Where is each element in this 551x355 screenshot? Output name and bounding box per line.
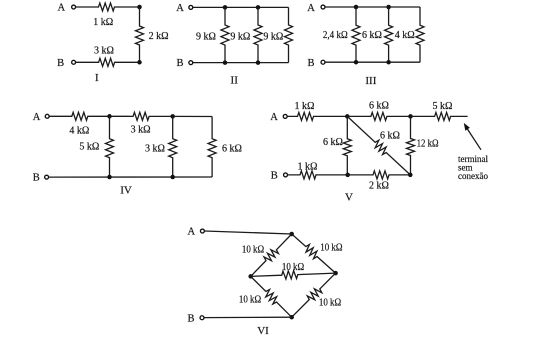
junction dot left node (VI) <box>248 274 253 279</box>
wire bottom rail (III) <box>325 61 420 63</box>
svg-text:6 kΩ: 6 kΩ <box>369 100 389 111</box>
junction dot top-right node (V) <box>408 114 413 119</box>
svg-text:3 kΩ: 3 kΩ <box>94 45 114 56</box>
wire A to top node (VI) <box>205 231 292 234</box>
junction dot top first (IV) <box>107 114 112 119</box>
svg-text:6 kΩ: 6 kΩ <box>222 143 242 154</box>
svg-text:B: B <box>307 58 314 69</box>
circuit IV: ladder network, node A terminal <box>45 114 49 118</box>
junction dot bottom-right node (V) <box>408 173 413 178</box>
svg-text:6 kΩ: 6 kΩ <box>323 137 343 148</box>
resistor R 4 kΩ (IV) with leads <box>49 112 109 120</box>
annotation text terminal sem conexão (V) <box>458 154 488 181</box>
annotation arrow to open terminal (V) <box>464 123 481 150</box>
junction dot right node (VI) <box>333 271 338 276</box>
resistor R 10 kΩ lower-left arm (VI) <box>251 276 292 317</box>
resistor R 9 kΩ third branch right edge (II) <box>285 7 293 62</box>
svg-text:1 kΩ: 1 kΩ <box>295 101 315 112</box>
junction dot top-right (I) <box>137 5 142 10</box>
junction dot bottom first (II) <box>223 60 228 65</box>
node B terminal (I) <box>72 60 76 64</box>
wire bottom rail (II) <box>193 62 289 64</box>
node B terminal (II) <box>189 61 193 65</box>
svg-text:10 kΩ: 10 kΩ <box>242 245 264 256</box>
svg-text:10 kΩ: 10 kΩ <box>320 242 342 253</box>
svg-text:A: A <box>188 227 196 238</box>
resistor R 5 kΩ to open terminal (V) <box>411 112 468 120</box>
svg-text:A: A <box>270 112 278 123</box>
svg-text:5 kΩ: 5 kΩ <box>79 142 99 153</box>
junction dot top first (III) <box>354 5 359 10</box>
wire top rail (II) <box>193 6 289 8</box>
node B terminal (V) <box>284 173 288 177</box>
resistor R 6 kΩ vertical right edge (IV) <box>208 117 216 178</box>
resistor R 10 kΩ upper-left arm (VI) <box>251 234 292 276</box>
resistor R 2 kΩ bottom (V) <box>348 171 411 179</box>
junction dot top node (VI) <box>289 232 294 237</box>
node B terminal (IV) <box>45 175 49 179</box>
svg-text:III: III <box>365 75 376 87</box>
svg-text:9 kΩ: 9 kΩ <box>230 31 250 42</box>
resistor R 3 kΩ vertical (IV) <box>169 116 177 177</box>
junction dot top-left node (V) <box>345 114 350 119</box>
junction dot top second (IV) <box>170 114 175 119</box>
resistor R 6 kΩ branch (III) <box>385 7 393 62</box>
resistor R 5 kΩ vertical (IV) <box>106 116 114 177</box>
circuit III: three parallel resistors, node A terminal <box>321 5 325 9</box>
resistor R 2 kΩ (I) vertical right branch <box>136 7 144 62</box>
circuit I: series-parallel network, node A terminal <box>72 5 76 9</box>
resistor R 9 kΩ second branch (II) <box>254 7 262 62</box>
wire bottom rail (IV) <box>49 176 212 178</box>
circuit VI: bridge network, node A terminal <box>200 229 204 233</box>
resistor R 1 kΩ bottom (V) <box>288 171 348 179</box>
junction dot bottom node (VI) <box>289 315 294 320</box>
svg-text:conexão: conexão <box>458 171 488 181</box>
resistor R 3 kΩ (I) with leads B to bottom-right node <box>76 58 140 66</box>
svg-text:A: A <box>33 112 41 123</box>
node B terminal (III) <box>321 60 325 64</box>
svg-text:B: B <box>176 58 183 69</box>
junction dot bottom second (III) <box>386 60 391 64</box>
junction dot bottom-left node (V) <box>345 173 350 178</box>
resistor R 1 kΩ top (V) <box>287 112 347 120</box>
junction dot bottom first (IV) <box>107 175 112 180</box>
junction dot bottom first (III) <box>354 60 359 64</box>
svg-text:2 kΩ: 2 kΩ <box>149 31 169 42</box>
resistor R 3 kΩ horizontal (IV) <box>110 112 173 120</box>
circuit V: bridge-like network, node A terminal <box>283 114 287 118</box>
svg-text:A: A <box>307 3 315 14</box>
svg-text:10 kΩ: 10 kΩ <box>319 298 341 309</box>
resistor R 9 kΩ first branch (II) <box>221 7 229 62</box>
resistor R 10 kΩ middle (VI) <box>251 271 336 279</box>
svg-text:A: A <box>176 3 184 14</box>
svg-text:B: B <box>187 313 194 324</box>
wire top right (IV) <box>173 115 212 117</box>
svg-text:A: A <box>58 2 66 13</box>
wire B to bottom node (VI) <box>204 316 292 318</box>
svg-text:B: B <box>271 171 278 182</box>
junction dot bottom second (IV) <box>170 175 175 180</box>
svg-text:V: V <box>345 192 353 204</box>
svg-text:4 kΩ: 4 kΩ <box>69 125 89 136</box>
svg-text:B: B <box>57 58 64 69</box>
svg-text:VI: VI <box>257 325 269 337</box>
svg-text:IV: IV <box>120 185 132 197</box>
junction dot bottom second (II) <box>256 60 261 65</box>
junction dot top first (II) <box>223 5 228 9</box>
resistor R 10 kΩ lower-right arm (VI) <box>292 273 336 317</box>
svg-text:9 kΩ: 9 kΩ <box>263 31 283 42</box>
svg-text:5 kΩ: 5 kΩ <box>433 101 453 112</box>
svg-text:12 kΩ: 12 kΩ <box>417 138 439 149</box>
svg-text:4 kΩ: 4 kΩ <box>395 30 415 41</box>
svg-text:II: II <box>231 75 239 87</box>
resistor R 6 kΩ left vertical (V) <box>343 116 351 174</box>
svg-text:2,4 kΩ: 2,4 kΩ <box>323 30 348 41</box>
junction dot top second (III) <box>386 5 391 10</box>
svg-text:3 kΩ: 3 kΩ <box>131 124 151 135</box>
wire top rail (III) <box>325 6 420 8</box>
svg-text:B: B <box>33 173 40 184</box>
svg-text:6 kΩ: 6 kΩ <box>380 131 400 142</box>
resistor R 1 kΩ (I) with leads A to top-right node <box>76 3 140 11</box>
resistor R 4 kΩ branch right edge (III) <box>416 7 424 62</box>
svg-text:I: I <box>95 72 99 84</box>
resistor R 6 kΩ diagonal (V) <box>347 116 410 174</box>
svg-text:3 kΩ: 3 kΩ <box>145 143 165 154</box>
svg-text:2 kΩ: 2 kΩ <box>369 181 389 192</box>
circuit II: three parallel resistors, node A terminal <box>189 5 193 9</box>
node B terminal (VI) <box>200 316 204 320</box>
svg-text:6 kΩ: 6 kΩ <box>362 30 382 41</box>
resistor R 12 kΩ vertical (V) <box>407 116 415 174</box>
svg-text:10 kΩ: 10 kΩ <box>282 262 304 273</box>
junction dot bottom-right (I) <box>137 60 142 65</box>
resistor R 6 kΩ top (V) <box>347 112 410 120</box>
junction dot top second (II) <box>256 5 261 9</box>
resistor R 10 kΩ upper-right arm (VI) <box>292 234 336 273</box>
svg-text:9 kΩ: 9 kΩ <box>196 31 216 42</box>
svg-text:1 kΩ: 1 kΩ <box>93 17 113 28</box>
svg-text:10 kΩ: 10 kΩ <box>239 295 261 306</box>
resistor R 2,4 kΩ branch (III) <box>352 7 360 62</box>
svg-text:1 kΩ: 1 kΩ <box>298 161 318 172</box>
